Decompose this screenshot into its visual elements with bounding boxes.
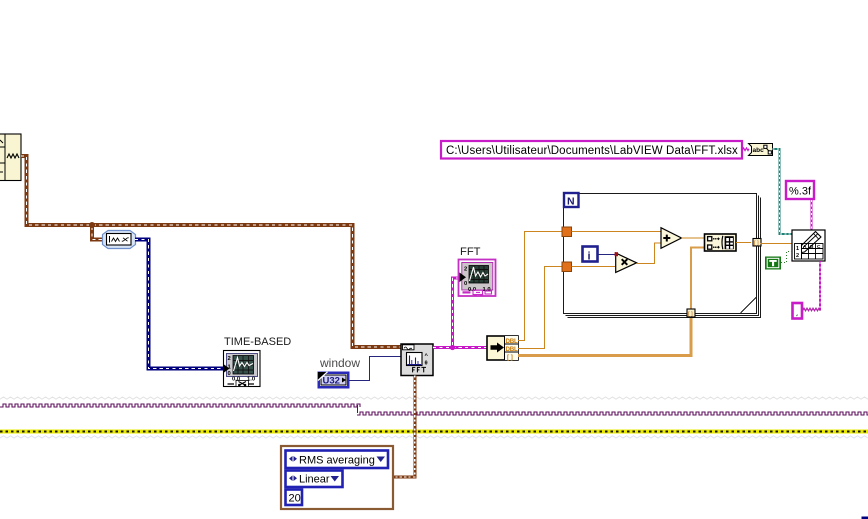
wire: green dotted boolean wire to write node [781, 252, 792, 263]
wire: purple string wire step down [357, 405, 359, 413]
node: iteration terminal i [583, 247, 598, 263]
wire: brown dotted wire from FFT express VI down to RMS cluster [393, 376, 415, 478]
node: FFT graph indicator icon (magenta) [459, 260, 496, 297]
wire: U32 blue scalar wire to FFT express VI [349, 357, 401, 381]
wire: long purple string wire (meander), left segment [0, 404, 360, 407]
junction on magenta wire [450, 345, 455, 350]
node: FFT express VI (Spectral Measurements) [401, 344, 433, 376]
svg-text:DBL: DBL [506, 338, 519, 345]
wire: long purple string wire, right segment [357, 412, 868, 415]
svg-text:2: 2 [464, 267, 467, 273]
svg-text:[ ]: [ ] [688, 312, 693, 318]
wire: orange DBL wire 1 (unbundle to loop top tunnel) [518, 232, 562, 341]
svg-text:0: 0 [228, 371, 231, 377]
wire: magenta cluster wire FFT express to unbundle [433, 346, 487, 349]
wire: orange wire from top tunnel to add node [572, 231, 662, 233]
node: add function [661, 228, 682, 249]
node: Unbundle (cluster to DBL,DBL,array) [487, 336, 518, 361]
svg-text:U32: U32 [323, 376, 340, 387]
svg-text:C: C [817, 244, 821, 250]
node: Index Array function [705, 234, 737, 251]
wire: magenta cluster wire up to FFT indicator [453, 278, 460, 348]
wire: orange wire index array to right tunnel [736, 242, 751, 244]
node: partial bundle node at left edge [0, 134, 21, 181]
wire: orange wire multiply output to add node [637, 243, 662, 264]
svg-text:[ ]: [ ] [754, 241, 759, 247]
wire: faint blue-gray chevron row below error wire [0, 436, 868, 438]
node: RMS averaging cluster constant [281, 446, 393, 509]
node: String To Path function [749, 144, 773, 156]
svg-text:1.0: 1.0 [483, 287, 491, 293]
wire: faint gray chevron row above purple string wire [0, 397, 868, 399]
node: path string constant C:\...FFT.xlsx [441, 141, 742, 159]
structure: For loop frame [564, 194, 761, 318]
svg-text:TIME-BASED: TIME-BASED [224, 336, 291, 348]
numeric: 20 [286, 490, 303, 506]
node: multiply function [616, 253, 637, 272]
wire: magenta string wire write node output down [819, 261, 821, 311]
node: partial node at bottom-right corner [862, 517, 868, 519]
wire: blue dashed wire from convert node to TIME-BASED graph [135, 240, 224, 369]
node: Convert from Dynamic Data (octagon) [103, 231, 136, 249]
svg-text:20: 20 [289, 493, 301, 505]
svg-text:DBL: DBL [506, 346, 519, 353]
wire: magenta string wire %.3f down to write node [810, 199, 812, 230]
wire: blue i wire to multiply node [598, 253, 616, 255]
svg-text:C:\Users\Utilisateur\Documents: C:\Users\Utilisateur\Documents\LabVIEW D… [446, 145, 738, 157]
svg-text:RMS averaging: RMS averaging [299, 455, 375, 467]
svg-text:1: 1 [796, 246, 799, 252]
node: string/path output indicator (small) [793, 303, 803, 319]
svg-text:0: 0 [464, 281, 467, 287]
wire: brown branch down to convert node [92, 225, 104, 240]
wire: thick orange DBL-array wire (unbundle to loop bottom tunnel) [518, 318, 691, 355]
enum: RMS averaging [286, 451, 389, 469]
enum: Linear [286, 471, 343, 488]
svg-text:abc: abc [753, 147, 765, 154]
node: Write Delimited Spreadsheet VI [792, 230, 825, 261]
tunnel: left top (orange filled) [562, 227, 572, 237]
wire: orange wire add output to index array [682, 237, 706, 239]
svg-text:A: A [803, 244, 807, 250]
svg-text:i: i [588, 251, 591, 263]
node: boolean True constant [765, 257, 781, 270]
svg-text:2: 2 [228, 356, 231, 362]
tunnel: loop bottom edge (array input) [687, 309, 695, 318]
svg-text:N: N [567, 195, 575, 207]
wire: orange DBL wire 2 (unbundle to loop lower tunnel) [518, 267, 562, 349]
svg-text:FFT: FFT [460, 246, 481, 258]
wire: brown waveform wire from left node to FFT express VI [21, 156, 401, 347]
coercion dot on multiply input [615, 252, 618, 256]
junction on brown wire [89, 222, 95, 228]
wire: orange array wire from bottom tunnel up to index array [691, 248, 705, 310]
svg-text:B: B [810, 244, 814, 250]
tunnel: left lower (orange filled) [562, 262, 572, 272]
node: loop count terminal N [564, 193, 579, 207]
svg-text:[ ]: [ ] [507, 354, 513, 361]
tunnel: loop right edge (output) [753, 239, 761, 247]
node: TIME-BASED waveform graph indicator icon [224, 351, 261, 387]
node: format string constant %.3f [786, 181, 814, 199]
svg-text:window: window [319, 356, 360, 370]
wire: orange wire right tunnel to write node [761, 243, 793, 245]
svg-text:%.3f: %.3f [789, 186, 812, 198]
svg-text:θ: θ [425, 361, 428, 367]
wire: orange wire from lower tunnel to multiply node [572, 266, 618, 268]
node: U32 numeric control terminal (window) [318, 372, 349, 388]
wire: magenta string stub to string-to-path node [742, 148, 749, 151]
wire: long yellow/black error wire [0, 429, 868, 433]
wire: teal path wire to write node [773, 149, 793, 234]
svg-text:2: 2 [796, 253, 799, 259]
svg-text:Linear: Linear [299, 474, 330, 486]
wire: magenta zigzag string wire to output box [803, 308, 821, 311]
